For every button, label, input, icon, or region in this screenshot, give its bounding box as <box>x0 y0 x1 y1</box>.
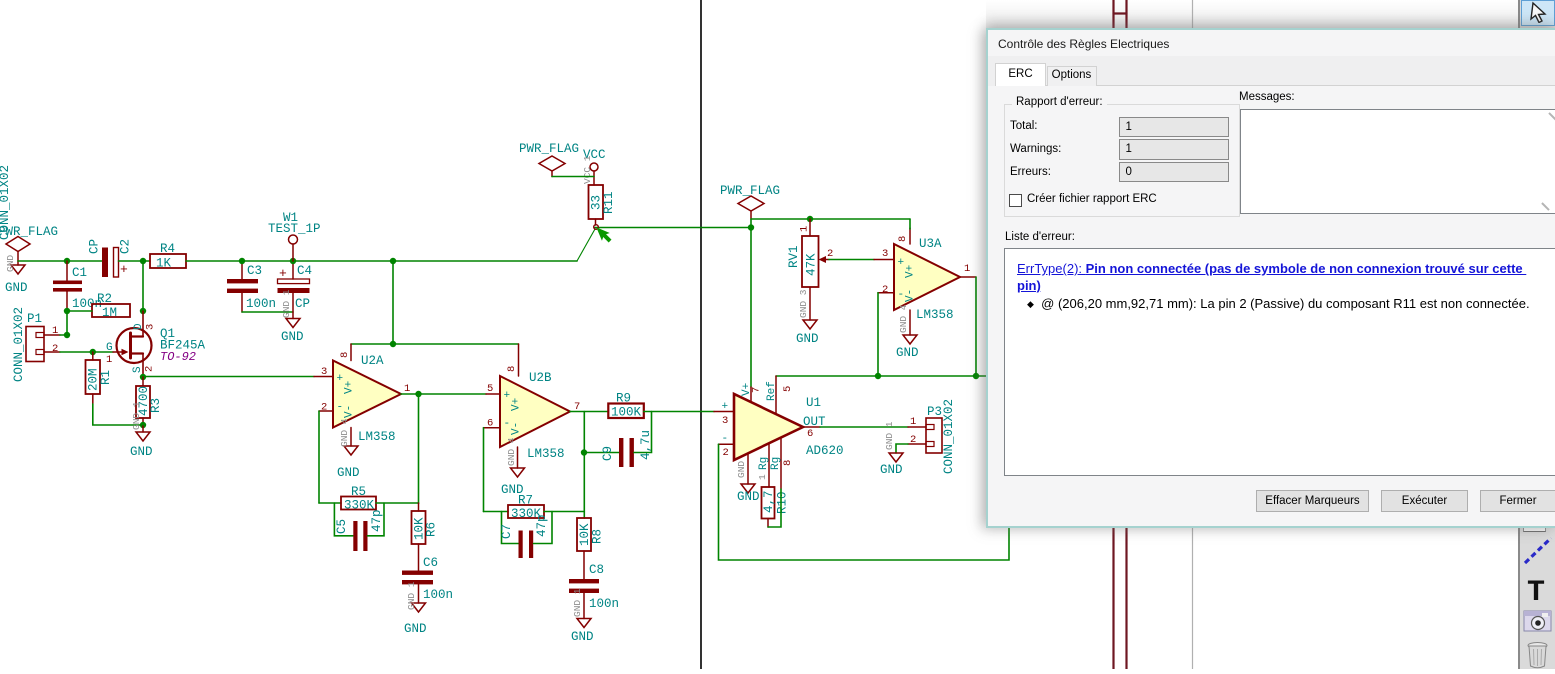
node feedback tee <box>390 258 396 264</box>
svg-text:LM358: LM358 <box>527 447 565 461</box>
svg-text:1: 1 <box>757 474 768 480</box>
capacitor C3 <box>227 261 276 312</box>
svg-text:G: G <box>106 342 113 354</box>
svg-text:7: 7 <box>751 387 763 393</box>
svg-text:GND 4: GND 4 <box>898 304 909 333</box>
svg-text:8: 8 <box>506 366 518 372</box>
wire (mid rail) <box>776 375 1012 377</box>
svg-text:1: 1 <box>964 263 970 275</box>
svg-text:V-: V- <box>511 422 523 435</box>
op-amp U2A <box>314 344 410 446</box>
svg-text:GND: GND <box>736 461 747 478</box>
ground symbol below U2A <box>337 418 360 480</box>
op-amp U3A <box>874 228 976 335</box>
svg-text:3: 3 <box>882 248 888 260</box>
wire <box>418 394 420 504</box>
svg-text:U3A: U3A <box>919 237 942 251</box>
svg-text:C5: C5 <box>335 519 349 534</box>
svg-text:GND 4: GND 4 <box>506 437 517 466</box>
svg-text:C7: C7 <box>500 524 514 539</box>
connector P1 <box>12 307 60 382</box>
svg-text:GND 1: GND 1 <box>131 401 142 430</box>
wire (V+ rail to op-amps) <box>351 343 519 345</box>
wire <box>1114 0 1127 669</box>
capacitor C5 <box>335 509 384 551</box>
svg-text:V+: V+ <box>511 398 523 411</box>
wire (U2B output) <box>570 411 608 413</box>
ground symbol below C6 <box>404 581 427 636</box>
ground symbol below R3 <box>130 401 153 459</box>
svg-text:-: - <box>722 433 729 445</box>
svg-text:LM358: LM358 <box>358 430 396 444</box>
svg-text:+: + <box>898 257 905 269</box>
wire <box>60 334 67 336</box>
svg-text:5: 5 <box>487 383 493 395</box>
svg-text:+: + <box>504 390 511 402</box>
resistor R3 <box>136 377 163 426</box>
svg-text:CONN_01X02: CONN_01X02 <box>942 399 956 474</box>
resistor R8 <box>577 518 605 579</box>
svg-text:C9: C9 <box>601 446 615 461</box>
svg-text:R11: R11 <box>602 191 616 214</box>
svg-text:GND: GND <box>5 255 16 272</box>
node U3A out <box>973 373 979 379</box>
svg-text:R5: R5 <box>351 485 366 499</box>
wire (U1 out) <box>820 426 908 428</box>
svg-text:CP: CP <box>295 297 310 311</box>
svg-text:-: - <box>898 289 905 301</box>
svg-text:2: 2 <box>723 447 729 459</box>
svg-text:T: T <box>1527 576 1545 610</box>
svg-text:1: 1 <box>106 354 112 366</box>
wire (vertical to R2) <box>142 261 144 311</box>
wire <box>595 227 751 229</box>
svg-text:GND: GND <box>896 346 919 360</box>
svg-text:R2: R2 <box>97 292 112 306</box>
wire (feedback left leg) <box>318 411 320 503</box>
wire (U2B - input leg) <box>483 428 485 512</box>
node U3A minus <box>875 373 881 379</box>
ground symbol below U3A <box>896 304 919 360</box>
cursor arrow <box>592 223 614 245</box>
svg-text:GND: GND <box>737 490 760 504</box>
wire (diagonal to R11) <box>577 229 595 261</box>
ground symbol U1 V- <box>736 461 760 504</box>
svg-text:1K: 1K <box>156 257 172 271</box>
svg-text:TEST_1P: TEST_1P <box>268 222 321 236</box>
svg-text:V+: V+ <box>905 265 917 278</box>
ground symbol P3 pin2 <box>880 421 903 477</box>
svg-text:R10: R10 <box>776 491 790 514</box>
wire <box>60 351 113 353</box>
svg-text:GND 1: GND 1 <box>406 581 417 610</box>
node C4 top <box>290 258 296 264</box>
op-amp U2B <box>484 344 581 468</box>
wire <box>909 219 911 229</box>
wire (U1 - to bottom loop) <box>719 444 1010 560</box>
svg-text:P3: P3 <box>927 405 942 419</box>
node R2/Q1 drain <box>140 308 146 314</box>
node PWR_FLAG <box>748 224 754 230</box>
wire <box>534 512 553 544</box>
wire (source to U2A +) <box>143 376 314 378</box>
svg-text:GND 1: GND 1 <box>572 588 583 617</box>
svg-text:V-: V- <box>344 405 356 418</box>
wire <box>368 503 385 536</box>
group box <box>1004 104 1240 217</box>
svg-text:100n: 100n <box>423 588 453 602</box>
svg-text:2: 2 <box>827 248 833 260</box>
svg-text:V-: V- <box>905 289 917 302</box>
svg-text:TO-92: TO-92 <box>160 350 196 364</box>
svg-text:LM358: LM358 <box>916 308 954 322</box>
svg-text:GND: GND <box>130 445 153 459</box>
svg-text:R9: R9 <box>616 392 631 406</box>
svg-text:4,7: 4,7 <box>762 490 776 513</box>
svg-text:C6: C6 <box>423 556 438 570</box>
svg-text:R4: R4 <box>160 242 175 256</box>
test point W1 TEST_1P <box>268 211 321 261</box>
svg-text:PWR_FLAG: PWR_FLAG <box>519 142 579 156</box>
node C3 top <box>239 258 245 264</box>
svg-text:1: 1 <box>799 226 811 232</box>
wire <box>392 261 394 344</box>
wire <box>544 511 584 513</box>
wire (U3A out down) <box>975 277 977 376</box>
capacitor C6 <box>402 556 453 603</box>
connector P3 <box>908 399 956 474</box>
svg-text:1M: 1M <box>102 306 117 320</box>
wire <box>18 260 102 262</box>
svg-text:3: 3 <box>145 324 157 330</box>
resistor R10 <box>762 487 790 527</box>
svg-text:D: D <box>133 323 145 330</box>
resistor R2 <box>67 292 130 320</box>
node main input <box>64 258 70 264</box>
svg-text:3: 3 <box>722 415 728 427</box>
op-amp U1 AD620 <box>714 376 844 489</box>
svg-text:+: + <box>279 266 287 281</box>
svg-text:PWR_FLAG: PWR_FLAG <box>0 225 58 239</box>
svg-text:100n: 100n <box>589 597 619 611</box>
svg-text:2: 2 <box>144 366 156 372</box>
svg-text:U2A: U2A <box>361 354 384 368</box>
ground symbol below U2B <box>501 437 525 497</box>
node R1 top <box>90 349 96 355</box>
svg-text:GND: GND <box>880 463 903 477</box>
resistor R4 <box>150 242 186 271</box>
svg-text:47p: 47p <box>535 514 549 537</box>
svg-text:R7: R7 <box>518 494 533 508</box>
svg-text:GND: GND <box>571 630 594 644</box>
power flag PF01 <box>0 225 58 261</box>
wire <box>634 412 652 453</box>
svg-text:C1: C1 <box>72 266 87 280</box>
svg-text:V+: V+ <box>344 381 356 394</box>
resistor R6 <box>412 503 439 571</box>
node Q1 source <box>140 374 146 380</box>
svg-text:-: - <box>504 418 511 430</box>
wire <box>242 311 293 313</box>
capacitor C1 <box>53 261 102 311</box>
resistor R1 <box>86 352 114 404</box>
svg-text:8: 8 <box>897 236 909 242</box>
transistor Q1 BF245A <box>106 311 206 377</box>
svg-text:GND: GND <box>404 622 427 636</box>
svg-text:GND: GND <box>281 330 304 344</box>
svg-text:Rg: Rg <box>758 457 770 470</box>
svg-text:S: S <box>132 366 144 373</box>
ground symbol below C3/C4 <box>281 289 304 344</box>
svg-text:C2: C2 <box>119 239 133 254</box>
capacitor C9 <box>584 430 653 467</box>
wire <box>93 404 143 425</box>
svg-text:GND: GND <box>337 466 360 480</box>
resistor R9 <box>608 392 644 420</box>
capacitor C8 <box>569 563 619 619</box>
node V+ rail <box>390 341 396 347</box>
svg-text:+: + <box>120 262 128 277</box>
potentiometer RV1 <box>787 219 833 320</box>
svg-text:47K: 47K <box>805 253 819 276</box>
svg-text:2: 2 <box>882 284 888 296</box>
capacitor C2 (polarized, value CP) <box>88 239 133 277</box>
svg-text:1: 1 <box>910 416 916 428</box>
wire <box>644 411 714 413</box>
svg-text:CONN_01X02: CONN_01X02 <box>12 307 26 382</box>
wire <box>186 260 577 262</box>
power symbol VCC <box>582 148 606 184</box>
svg-text:R8: R8 <box>591 529 605 544</box>
node R4 left <box>140 258 146 264</box>
svg-text:C4: C4 <box>297 264 312 278</box>
node P1 pin1 <box>64 332 70 338</box>
node C1/R2 <box>64 308 70 314</box>
resistor R7 <box>508 494 544 522</box>
ground symbol below RV1 <box>796 289 819 346</box>
node U2A out <box>415 391 421 397</box>
svg-text:GND 1: GND 1 <box>281 289 292 318</box>
wire (U2A output) <box>401 393 486 395</box>
svg-text:GND: GND <box>5 281 28 295</box>
svg-text:5: 5 <box>782 386 794 392</box>
node C9 left <box>581 449 587 455</box>
capacitor C7 <box>500 514 549 558</box>
svg-text:8: 8 <box>782 460 794 466</box>
ground symbol #PWR01 <box>5 255 28 295</box>
wire <box>484 511 509 513</box>
wire (U3A - leg down) <box>877 293 879 376</box>
power flag PF03 <box>720 184 780 219</box>
wire <box>896 444 908 453</box>
svg-text:R1: R1 <box>99 370 113 385</box>
svg-text:Rg: Rg <box>770 457 782 470</box>
svg-text:6: 6 <box>807 428 813 440</box>
wire <box>119 260 151 262</box>
svg-text:C8: C8 <box>589 563 604 577</box>
svg-text:GND: GND <box>796 332 819 346</box>
svg-text:-: - <box>337 402 344 414</box>
wire <box>552 176 594 178</box>
svg-text:8: 8 <box>339 352 351 358</box>
svg-text:U2B: U2B <box>529 371 552 385</box>
svg-text:AD620: AD620 <box>806 444 844 458</box>
capacitor C4 (polarized, value CP) <box>278 261 313 319</box>
svg-text:R6: R6 <box>425 522 439 537</box>
wire <box>66 311 68 335</box>
wire (Rg loop) <box>768 489 781 527</box>
ground symbol below C8 <box>571 588 594 644</box>
svg-text:P1: P1 <box>27 312 42 326</box>
wire (to U1 V+) <box>750 219 752 387</box>
wire <box>376 502 419 504</box>
svg-text:RV1: RV1 <box>787 245 801 268</box>
svg-text:100n: 100n <box>246 297 276 311</box>
node R1/R3 bottom <box>140 422 146 428</box>
unconnected pin circle R11 pin2 <box>594 225 599 230</box>
svg-text:R3: R3 <box>149 398 163 413</box>
resistor R11 <box>589 171 617 225</box>
svg-text:+: + <box>337 373 344 385</box>
resistor R5 <box>341 485 376 513</box>
node RV1 top <box>807 216 813 222</box>
svg-text:GND 1: GND 1 <box>884 421 895 450</box>
svg-text:47p: 47p <box>370 509 384 532</box>
svg-text:CP: CP <box>88 239 102 254</box>
wire (VCC rail) <box>751 218 910 220</box>
svg-text:VCC 1: VCC 1 <box>582 155 593 184</box>
svg-text:GND 4: GND 4 <box>339 418 350 447</box>
wire (RV1 wiper to U3A +) <box>829 259 874 261</box>
svg-text:U1: U1 <box>806 396 821 410</box>
svg-text:2: 2 <box>52 343 58 355</box>
svg-text:GND 3: GND 3 <box>798 289 809 318</box>
svg-text:100K: 100K <box>611 406 642 420</box>
wire <box>319 502 341 504</box>
power flag PF02 <box>519 142 579 177</box>
wire <box>583 412 585 519</box>
svg-text:C3: C3 <box>247 264 262 278</box>
